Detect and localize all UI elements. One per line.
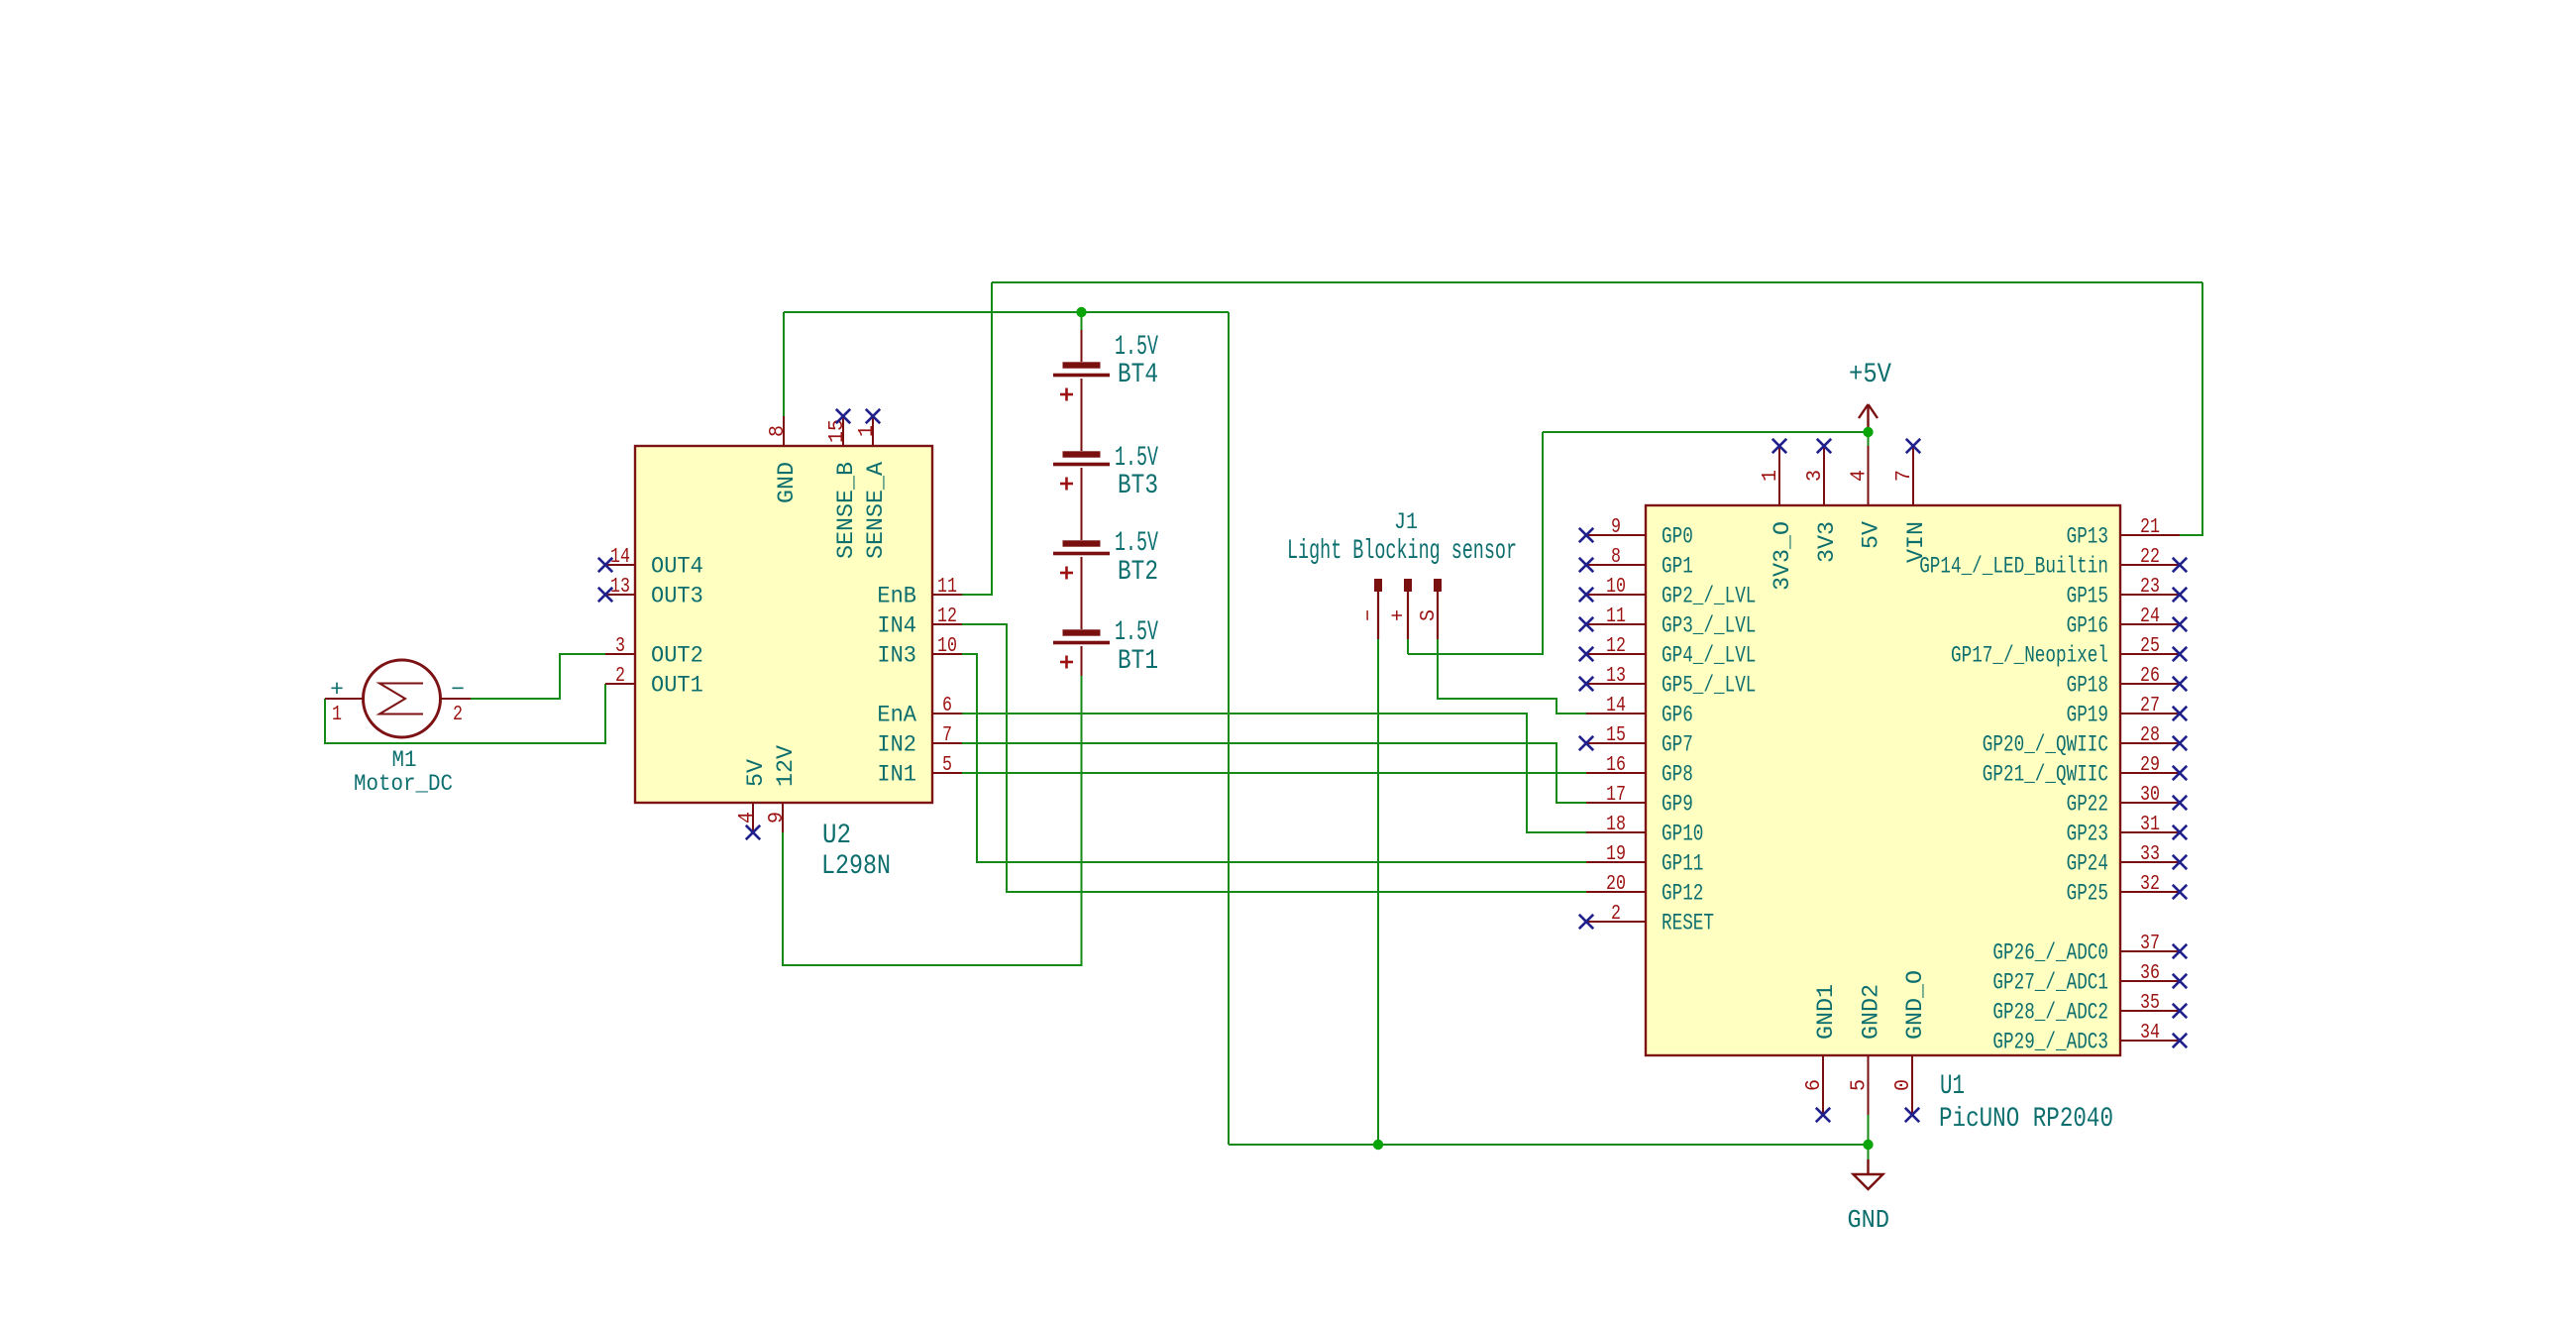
U1 pin 5 GND2 [1849,984,1884,1115]
svg-text:GP2_/_LVL: GP2_/_LVL [1662,584,1756,609]
svg-text:+: + [1388,609,1411,621]
U1 pin 11 GP3_/_LVL [1579,605,1757,639]
svg-text:4: 4 [736,812,759,824]
U2 pin 13 OUT3 [598,576,703,609]
wire net EnA: U2 EnA to U1 GP10 [962,714,1586,832]
svg-text:−: − [451,677,465,703]
U1 pin 19 GP11 [1586,843,1703,877]
svg-text:GP17_/_Neopixel: GP17_/_Neopixel [1951,643,2108,669]
svg-text:6: 6 [1803,1079,1826,1091]
wire GND: vertical x=1240 down to bottom rail [1228,312,1230,1145]
U1 pin 2 RESET [1579,903,1714,936]
svg-text:GP12: GP12 [1662,881,1703,907]
svg-text:2: 2 [1611,903,1621,926]
svg-text:36: 36 [2140,962,2160,985]
svg-text:U1: U1 [1940,1071,1965,1102]
svg-text:GND1: GND1 [1813,984,1839,1040]
wire net EnB-GP13: from U2 EnB up [962,282,992,595]
svg-text:GND_O: GND_O [1902,970,1928,1040]
motor M1 pin 2 [441,677,472,726]
svg-text:21: 21 [2140,516,2160,539]
svg-text:GP7: GP7 [1662,732,1693,758]
IC U1 PicUNO RP2040 body [1646,505,2120,1055]
wire net EnB-GP13: down to U1 GP13 [2180,282,2202,535]
svg-text:BT4: BT4 [1118,360,1158,390]
svg-text:GP21_/_QWIIC: GP21_/_QWIIC [1983,762,2108,788]
svg-text:GP24: GP24 [2067,851,2108,877]
svg-text:32: 32 [2140,873,2160,896]
U2 pin 6 EnA [877,695,962,728]
svg-text:11: 11 [937,576,957,599]
svg-text:IN3: IN3 [877,643,916,669]
U1 pin 33 GP24 [2067,843,2188,877]
svg-text:8: 8 [767,425,790,437]
U1 pin 28 GP20_/_QWIIC [1983,724,2187,758]
svg-text:1.5V: 1.5V [1115,332,1158,363]
U1 pin 25 GP17_/_Neopixel [1951,635,2187,669]
svg-text:GP6: GP6 [1662,703,1693,728]
svg-text:17: 17 [1606,784,1626,807]
U2 pin 2 OUT1 [605,665,703,699]
svg-text:GP8: GP8 [1662,762,1693,788]
svg-text:7: 7 [942,724,952,747]
svg-text:GND: GND [1848,1205,1890,1235]
U1 pin 6 GND1 [1803,984,1839,1122]
U1 pin 20 GP12 [1586,873,1703,907]
wire J1 pin + stub [1407,639,1409,654]
svg-text:22: 22 [2140,546,2160,569]
svg-text:OUT2: OUT2 [651,643,703,669]
U1 pin 35 GP28_/_ADC2 [1992,992,2187,1026]
svg-text:12: 12 [1606,635,1626,658]
U2 pin 8 GND [767,416,800,503]
wire +5V rail to junction [1543,431,1869,433]
svg-text:31: 31 [2140,814,2160,836]
U2 pin 14 OUT4 [598,546,703,580]
U1 pin 1 3V3_O [1760,439,1795,591]
U1 pin 13 GP5_/_LVL [1579,665,1757,699]
junction battery top / GND rail [1076,307,1086,317]
IC U2 L298N body [635,446,932,803]
svg-text:1: 1 [856,425,879,437]
svg-text:GP19: GP19 [2067,703,2108,728]
U1 pin 26 GP18 [2067,665,2188,699]
connector J1 pin S [1418,579,1442,639]
U2 pin 7 IN2 [877,724,962,758]
svg-text:14: 14 [1606,695,1626,717]
U1 pin 0 GND_O [1892,970,1928,1122]
wire motor M1 pin2 to U2 OUT2 [471,654,605,699]
svg-text:18: 18 [1606,814,1626,836]
U1 pin 7 VIN [1893,439,1929,563]
svg-text:GP14_/_LED_Builtin: GP14_/_LED_Builtin [1919,554,2108,580]
svg-text:5V: 5V [743,759,769,787]
wire battery top stub [1081,312,1083,330]
U1 pin 31 GP23 [2067,814,2188,847]
svg-text:GP25: GP25 [2067,881,2108,907]
U2 pin 10 IN3 [877,635,962,669]
svg-text:4: 4 [1849,470,1872,482]
svg-text:GND2: GND2 [1859,984,1884,1040]
svg-text:VIN: VIN [1903,521,1929,563]
wire +5V down to J1 pin + [1408,432,1543,654]
svg-text:−: − [1358,609,1381,621]
svg-text:IN4: IN4 [877,613,916,639]
U1 pin 4 5V [1849,446,1884,549]
junction GND rail / J1 minus [1373,1140,1383,1150]
svg-text:PicUNO RP2040: PicUNO RP2040 [1939,1104,2113,1135]
connector J1 pin + [1388,579,1412,639]
svg-text:3: 3 [1804,470,1827,482]
svg-text:GND: GND [774,462,800,503]
svg-text:GP16: GP16 [2067,613,2108,639]
svg-text:15: 15 [1606,724,1626,747]
svg-text:M1: M1 [392,747,417,773]
svg-text:U2: U2 [822,821,851,851]
U1 pin 23 GP15 [2067,576,2188,609]
svg-text:GP20_/_QWIIC: GP20_/_QWIIC [1983,732,2108,758]
svg-text:BT3: BT3 [1118,471,1158,501]
svg-text:35: 35 [2140,992,2160,1015]
U1 pin 27 GP19 [2067,695,2188,728]
svg-text:+: + [330,677,344,703]
battery BT2 [1053,540,1110,579]
svg-text:J1: J1 [1394,509,1418,535]
svg-text:GP27_/_ADC1: GP27_/_ADC1 [1992,970,2108,996]
svg-text:1: 1 [332,704,342,726]
svg-text:GP28_/_ADC2: GP28_/_ADC2 [1992,1000,2108,1026]
junction +5V [1863,427,1873,437]
svg-text:GP23: GP23 [2067,822,2108,847]
svg-text:20: 20 [1606,873,1626,896]
svg-text:2: 2 [615,665,625,688]
svg-text:GP22: GP22 [2067,792,2108,818]
power symbol +5V [1859,404,1878,432]
svg-text:0: 0 [1892,1079,1915,1091]
svg-text:GP15: GP15 [2067,584,2108,609]
svg-text:16: 16 [1606,754,1626,777]
svg-text:OUT4: OUT4 [651,554,703,580]
svg-text:Motor_DC: Motor_DC [354,771,453,797]
U1 pin 16 GP8 [1586,754,1693,788]
svg-text:29: 29 [2140,754,2160,777]
svg-text:GP11: GP11 [1662,851,1703,877]
svg-text:GP29_/_ADC3: GP29_/_ADC3 [1992,1030,2108,1055]
svg-text:5: 5 [1849,1079,1872,1091]
svg-text:12V: 12V [773,745,799,787]
svg-text:RESET: RESET [1662,911,1714,936]
svg-text:GP26_/_ADC0: GP26_/_ADC0 [1992,940,2108,966]
U1 pin 3 3V3 [1804,439,1840,563]
wire GND: bottom rail to GND symbol [1229,1144,1869,1146]
svg-text:GP0: GP0 [1662,524,1693,550]
battery stack link pins [1081,330,1083,676]
U1 pin 12 GP4_/_LVL [1579,635,1757,669]
svg-text:33: 33 [2140,843,2160,866]
svg-text:+5V: +5V [1849,360,1891,390]
U1 pin 29 GP21_/_QWIIC [1983,754,2187,788]
svg-text:GP1: GP1 [1662,554,1693,580]
wire GND: U1 GND2 down to junction [1868,1115,1870,1145]
svg-text:9: 9 [1611,516,1621,539]
svg-text:28: 28 [2140,724,2160,747]
svg-text:GP4_/_LVL: GP4_/_LVL [1662,643,1756,669]
svg-text:23: 23 [2140,576,2160,599]
svg-text:7: 7 [1893,470,1916,482]
svg-text:SENSE_A: SENSE_A [863,462,889,559]
U1 pin 24 GP16 [2067,605,2188,639]
svg-text:3V3: 3V3 [1814,521,1840,563]
svg-text:1.5V: 1.5V [1115,617,1158,648]
wire GND junction to GND symbol [1868,1145,1870,1160]
svg-text:IN1: IN1 [877,762,916,788]
svg-text:30: 30 [2140,784,2160,807]
motor M1 symbol circle [364,660,441,737]
U1 pin 17 GP9 [1586,784,1693,818]
svg-text:OUT1: OUT1 [651,673,703,699]
svg-text:GP18: GP18 [2067,673,2108,699]
svg-text:S: S [1418,609,1441,621]
svg-text:L298N: L298N [821,851,891,882]
svg-text:13: 13 [610,576,630,599]
svg-text:5: 5 [942,754,952,777]
svg-text:EnA: EnA [877,703,916,728]
power symbol GND [1854,1159,1883,1189]
svg-text:1.5V: 1.5V [1115,528,1158,559]
svg-text:11: 11 [1606,605,1626,628]
wire net EnB-GP13: top rail y=285 [992,281,2202,283]
U1 pin 22 GP14_/_LED_Builtin [1919,546,2187,580]
U2 pin 15 SENSE_B [826,409,859,559]
svg-text:19: 19 [1606,843,1626,866]
U1 pin 30 GP22 [2067,784,2188,818]
U1 pin 37 GP26_/_ADC0 [1992,933,2187,966]
svg-text:OUT3: OUT3 [651,584,703,609]
U2 pin 12 IN4 [877,605,962,639]
svg-text:IN2: IN2 [877,732,916,758]
svg-text:26: 26 [2140,665,2160,688]
U1 pin 34 GP29_/_ADC3 [1992,1022,2187,1055]
svg-text:34: 34 [2140,1022,2160,1044]
U1 pin 9 GP0 [1579,516,1693,550]
wire GND: U2 pin8 top rail y=315 [784,311,1229,313]
svg-text:6: 6 [942,695,952,717]
U1 pin 36 GP27_/_ADC1 [1992,962,2187,996]
U2 pin 5 IN1 [877,754,962,788]
U1 pin 8 GP1 [1579,546,1693,580]
U2 pin 1 SENSE_A [856,409,889,559]
svg-text:GP10: GP10 [1662,822,1703,847]
wire net IN1: U2 IN1 to U1 GP8 [962,772,1586,774]
svg-text:Light Blocking sensor: Light Blocking sensor [1287,536,1517,567]
svg-text:12: 12 [937,605,957,628]
svg-text:3: 3 [615,635,625,658]
svg-text:37: 37 [2140,933,2160,955]
svg-text:1: 1 [1760,470,1782,482]
U2 pin 11 EnB [877,576,962,609]
wire net 12V: U2 pin9 to battery BT1 minus [783,676,1082,965]
svg-text:3V3_O: 3V3_O [1770,521,1795,591]
motor M1 pin 1 [325,677,364,726]
U1 pin 18 GP10 [1586,814,1703,847]
U2 pin 9 12V [766,745,799,832]
svg-text:27: 27 [2140,695,2160,717]
svg-text:GP5_/_LVL: GP5_/_LVL [1662,673,1756,699]
U1 pin 21 GP13 [2067,516,2180,550]
svg-text:GP13: GP13 [2067,524,2108,550]
U1 pin 10 GP2_/_LVL [1579,576,1757,609]
svg-text:14: 14 [610,546,630,569]
connector J1 pin − [1358,579,1382,639]
svg-text:BT2: BT2 [1118,557,1158,588]
svg-text:5V: 5V [1859,521,1884,549]
svg-text:25: 25 [2140,635,2160,658]
svg-text:EnB: EnB [877,584,916,609]
junction GND rail / GND symbol [1863,1140,1873,1150]
svg-text:SENSE_B: SENSE_B [833,462,859,559]
wire GND: J1 pin - down to bottom rail [1377,639,1379,1145]
svg-text:10: 10 [1606,576,1626,599]
motor M1 sigma coil [379,684,423,714]
svg-text:GP3_/_LVL: GP3_/_LVL [1662,613,1756,639]
battery BT3 [1053,451,1110,490]
U2 pin 4 5V [736,759,769,840]
svg-text:2: 2 [453,704,463,726]
svg-text:13: 13 [1606,665,1626,688]
svg-text:10: 10 [937,635,957,658]
U1 pin 15 GP7 [1579,724,1693,758]
svg-text:8: 8 [1611,546,1621,569]
U2 pin 3 OUT2 [605,635,703,669]
battery BT4 [1053,362,1110,400]
svg-text:9: 9 [766,812,789,824]
battery BT1 [1053,629,1110,668]
wire net S: J1 pin S to U1 GP6 [1438,639,1586,714]
U1 pin 14 GP6 [1586,695,1693,728]
wire net IN2: U2 IN2 to U1 GP9 [962,743,1586,803]
svg-text:1.5V: 1.5V [1115,443,1158,474]
U1 pin 32 GP25 [2067,873,2188,907]
wire +5V junction down to U1 pin 4 [1868,432,1870,446]
svg-text:24: 24 [2140,605,2160,628]
wire net IN4: U2 IN4 to U1 GP12 [962,624,1586,892]
svg-text:GP9: GP9 [1662,792,1693,818]
wire GND: up from U2 pin 8 [783,312,785,416]
svg-text:BT1: BT1 [1118,646,1158,677]
wire motor M1 pin1 to U2 OUT1 [325,684,605,743]
wire net IN3: U2 IN3 to U1 GP11 [962,654,1586,862]
